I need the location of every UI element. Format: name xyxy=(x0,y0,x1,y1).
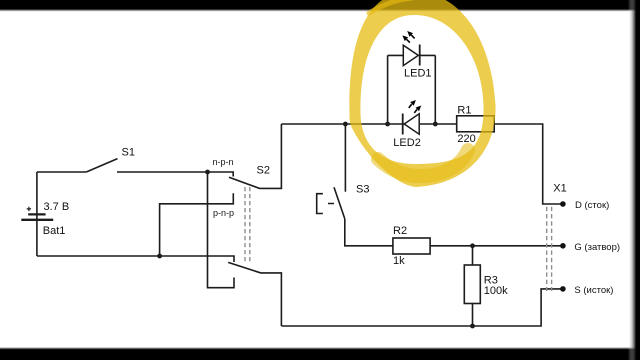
svg-text:100k: 100k xyxy=(484,285,508,297)
node junction S1/S2 xyxy=(205,170,210,175)
S2 mechanical link dashed xyxy=(245,187,250,263)
switch S1 blade xyxy=(86,159,117,172)
node junction LED left xyxy=(385,122,390,127)
letterbox bottom bar xyxy=(0,347,640,360)
resistor R1 xyxy=(457,116,495,132)
node junction LED right xyxy=(433,122,438,127)
wire top-left rail to S1 xyxy=(37,171,86,173)
X1 pin S terminal xyxy=(560,286,566,292)
wire R3 vertical xyxy=(472,246,474,326)
svg-text:LED2: LED2 xyxy=(393,137,421,149)
svg-text:G (затвор): G (затвор) xyxy=(574,242,620,253)
svg-text:X1: X1 xyxy=(553,183,566,195)
node junction R2/R3 xyxy=(470,243,475,248)
wire R2 to node to X1 G xyxy=(430,245,563,247)
svg-text:LED1: LED1 xyxy=(404,68,432,80)
wire LED1 row xyxy=(388,54,436,56)
X1 pin D terminal xyxy=(560,201,566,207)
svg-text:R1: R1 xyxy=(457,105,471,117)
svg-text:1k: 1k xyxy=(393,255,405,267)
wire battery left loop vertical xyxy=(36,172,38,256)
wire pnp contact L xyxy=(160,193,234,256)
wire S3 bottom to R2 xyxy=(345,219,393,246)
node junction bottom rail pnp xyxy=(157,254,162,259)
right edge dark band xyxy=(628,0,640,360)
svg-text:n-p-n: n-p-n xyxy=(213,157,234,167)
switch S3 blade xyxy=(334,187,345,218)
svg-text:S1: S1 xyxy=(122,147,135,159)
wire bottom rail xyxy=(281,289,563,326)
node junction S3 top xyxy=(343,122,348,127)
svg-text:R2: R2 xyxy=(393,225,407,237)
wire bottom-left rail xyxy=(37,256,234,262)
resistor R3 xyxy=(464,265,480,304)
wire S1 to node xyxy=(117,171,208,173)
switch S2 upper blade and common xyxy=(229,124,281,188)
svg-text:D (сток): D (сток) xyxy=(575,200,609,211)
resistor R2 xyxy=(393,238,430,254)
yellow marker circle annotation around LEDs xyxy=(349,0,495,187)
wire top rail xyxy=(281,124,563,204)
LED D2 symbol xyxy=(403,100,422,135)
node junction R3 bottom xyxy=(470,324,475,329)
svg-text:p-n-p: p-n-p xyxy=(213,208,234,218)
svg-text:S3: S3 xyxy=(356,184,369,196)
LED D1 symbol xyxy=(402,31,419,66)
wire node down to lower contact xyxy=(208,172,235,288)
switch S3 actuator xyxy=(317,194,334,214)
X1 pin G terminal xyxy=(560,243,566,249)
svg-text:S (исток): S (исток) xyxy=(574,285,613,296)
svg-text:3.7 В: 3.7 В xyxy=(44,201,70,213)
letterbox top bar xyxy=(0,0,640,12)
svg-text:S2: S2 xyxy=(257,165,270,177)
switch S2 lower blade and common xyxy=(228,262,281,326)
wire LED branch right vertical xyxy=(434,55,436,124)
wire S3 top terminal xyxy=(344,124,346,192)
battery Bat1 xyxy=(21,207,53,220)
wire npn contact xyxy=(208,172,234,177)
wire LED branch left vertical xyxy=(387,55,389,124)
connector X1 dashed outline xyxy=(547,207,552,291)
svg-text:Bat1: Bat1 xyxy=(43,225,66,237)
